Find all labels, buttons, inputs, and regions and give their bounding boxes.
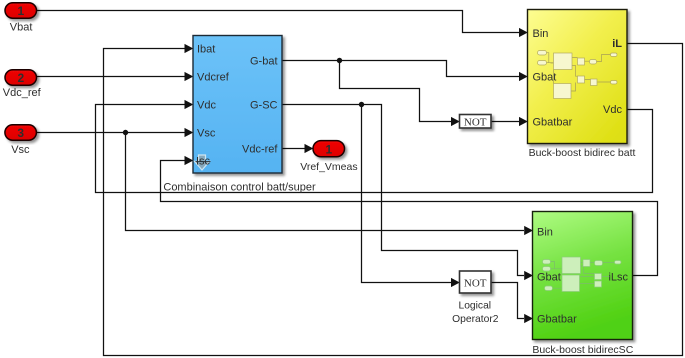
wire iL feedback loop: yellow iL output around to blue Ibat xyxy=(104,44,683,356)
logical operator NOT1 xyxy=(460,115,492,129)
svg-text:Logical: Logical xyxy=(458,301,491,312)
wire Vdc-ref: blue output to outport Vref_Vmeas xyxy=(282,144,313,153)
svg-text:2: 2 xyxy=(17,71,24,85)
svg-text:G-bat: G-bat xyxy=(250,55,278,67)
subsystem U2 content preview xyxy=(538,51,618,99)
svg-text:NOT: NOT xyxy=(464,117,487,129)
wire branch Vsc to green Bin xyxy=(126,133,534,236)
svg-text:Vdc: Vdc xyxy=(197,99,216,111)
svg-text:Gbatbar: Gbatbar xyxy=(537,313,577,325)
svg-text:1: 1 xyxy=(325,142,332,156)
svg-text:G-SC: G-SC xyxy=(250,99,278,111)
svg-text:Vdcref: Vdcref xyxy=(197,71,230,83)
outport 1 Vref_Vmeas xyxy=(313,141,345,157)
svg-text:1: 1 xyxy=(17,4,24,18)
svg-text:Bin: Bin xyxy=(537,226,553,238)
wire Vdc_ref: port2 to blue Vdcref xyxy=(37,72,194,81)
svg-text:Vdc_ref: Vdc_ref xyxy=(3,87,42,99)
svg-text:Buck-boost bidirecSC: Buck-boost bidirecSC xyxy=(532,344,633,356)
inport 1 Vbat xyxy=(5,3,37,18)
svg-text:iLsc: iLsc xyxy=(608,271,628,283)
subsystem U2 Buck-boost bidirec batt xyxy=(528,10,628,144)
subsystem U3 content preview xyxy=(543,257,622,292)
svg-text:Vsc: Vsc xyxy=(11,144,30,156)
svg-text:Gbat: Gbat xyxy=(537,271,561,283)
svg-text:NOT: NOT xyxy=(464,278,487,290)
subsystem U1 Combinaison control batt/super xyxy=(193,36,282,174)
svg-text:Vref_Vmeas: Vref_Vmeas xyxy=(300,161,357,173)
svg-text:Vdc-ref: Vdc-ref xyxy=(242,143,278,155)
inport 2 Vdc_ref xyxy=(5,70,37,85)
svg-text:Vdc: Vdc xyxy=(603,104,622,116)
node junction on G-bat wire xyxy=(337,58,342,63)
wire branch G-SC to NOT2 input xyxy=(362,105,460,288)
wire branch G-bat to NOT1 input xyxy=(340,61,460,127)
badge variant arrow inside U1 xyxy=(195,155,211,170)
wire G-SC: blue output to green Gbat xyxy=(282,105,533,281)
inport 3 Vsc xyxy=(5,125,37,140)
svg-text:Gbat: Gbat xyxy=(533,71,557,83)
svg-text:Gbatbar: Gbatbar xyxy=(533,116,573,128)
svg-text:Ibat: Ibat xyxy=(197,43,215,55)
node junction on G-SC wire xyxy=(359,102,364,107)
svg-text:Vbat: Vbat xyxy=(10,22,33,34)
wire Vsc: port3 to blue Vsc xyxy=(36,128,194,137)
svg-text:Bin: Bin xyxy=(533,28,549,40)
logical operator NOT2 xyxy=(460,271,492,293)
svg-text:Vsc: Vsc xyxy=(197,127,216,139)
wire NOT1 output to yellow Gbatbar xyxy=(491,117,528,126)
wire NOT2 output to green Gbatbar xyxy=(492,283,534,324)
svg-text:iL: iL xyxy=(612,38,622,50)
svg-text:Operator2: Operator2 xyxy=(452,314,499,325)
wire G-bat: blue output to yellow Gbat xyxy=(282,61,528,82)
node junction on Vsc wire xyxy=(123,130,128,135)
svg-text:3: 3 xyxy=(17,126,24,140)
subsystem U3 Buck-boost bidirecSC xyxy=(533,212,633,340)
svg-text:Buck-boost bidirec batt: Buck-boost bidirec batt xyxy=(529,147,636,159)
svg-text:Combinaison control batt/super: Combinaison control batt/super xyxy=(163,182,316,194)
wire Vdc feedback: yellow Vdc output to blue Vdc input xyxy=(96,100,653,193)
wire Vbat: port1 to yellow Bin xyxy=(37,11,528,38)
wire iLsc feedback: green iLsc output to blue iL input xyxy=(161,156,658,276)
